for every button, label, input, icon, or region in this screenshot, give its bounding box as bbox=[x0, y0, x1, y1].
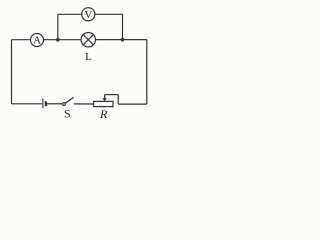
wire voltmeter branch right vertical bbox=[122, 14, 124, 39]
wire switch to rheostat bbox=[74, 103, 94, 105]
wire battery to switch bbox=[47, 103, 63, 105]
wire wiper branch vertical step bbox=[117, 95, 119, 105]
rheostat wiper stem bbox=[104, 95, 106, 99]
wire wiper branch bottom to right corner bbox=[118, 103, 147, 105]
rheostat R body bbox=[94, 101, 114, 106]
wire voltmeter branch left vertical bbox=[57, 14, 59, 39]
svg-text:L: L bbox=[85, 51, 92, 63]
rheostat wiper arrowhead bbox=[103, 98, 107, 101]
wire ammeter to node junction bbox=[44, 39, 82, 41]
wire lamp row left segment bbox=[12, 39, 31, 41]
wire from wiper top horizontal bbox=[105, 94, 119, 96]
wire top row right of voltmeter bbox=[95, 13, 123, 15]
node junction dot left (voltmeter tap) bbox=[56, 38, 60, 42]
lamp L cross stroke 1 bbox=[83, 35, 93, 45]
lamp L circle bbox=[81, 33, 95, 47]
battery long plate bbox=[42, 98, 44, 108]
node junction dot right (voltmeter tap) bbox=[121, 38, 125, 42]
wire left vertical side bbox=[11, 40, 13, 104]
ammeter U-A bbox=[31, 34, 44, 47]
battery short plate bbox=[45, 101, 47, 106]
switch pivot ring bbox=[63, 103, 66, 106]
wire right vertical side bbox=[146, 40, 148, 105]
svg-text:R: R bbox=[99, 107, 108, 121]
switch lever bbox=[65, 97, 73, 103]
wire top row left of voltmeter bbox=[58, 13, 82, 15]
voltmeter U-V bbox=[82, 8, 95, 21]
svg-text:A: A bbox=[33, 35, 41, 47]
wire lamp row right segment bbox=[95, 39, 146, 41]
wire bottom row to battery bbox=[12, 103, 43, 105]
svg-text:V: V bbox=[84, 9, 92, 21]
lamp L cross stroke 2 bbox=[83, 35, 93, 45]
svg-text:S: S bbox=[64, 107, 71, 121]
